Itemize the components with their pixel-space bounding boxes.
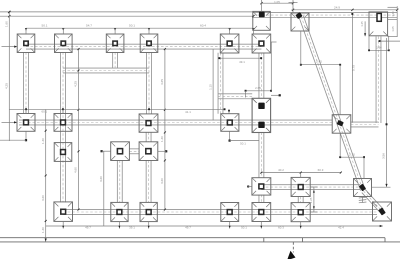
svg-text:3.56: 3.56 <box>382 153 386 159</box>
svg-text:49.7: 49.7 <box>85 226 91 230</box>
svg-text:4.25: 4.25 <box>74 81 78 87</box>
svg-text:24.9: 24.9 <box>334 5 340 9</box>
svg-text:1.60: 1.60 <box>5 21 9 27</box>
svg-text:1.40: 1.40 <box>160 136 164 142</box>
svg-text:60.1: 60.1 <box>41 110 47 114</box>
svg-text:1.90: 1.90 <box>376 46 382 50</box>
svg-text:39.1: 39.1 <box>129 226 135 230</box>
svg-text:1.40: 1.40 <box>41 138 45 144</box>
svg-text:1.40: 1.40 <box>391 11 395 17</box>
svg-text:1.05: 1.05 <box>274 0 280 4</box>
svg-text:49.1: 49.1 <box>239 60 245 64</box>
svg-text:1.40: 1.40 <box>41 227 45 233</box>
svg-text:2.30: 2.30 <box>349 152 355 156</box>
svg-text:60.3: 60.3 <box>318 168 324 172</box>
svg-text:50.1: 50.1 <box>241 226 247 230</box>
svg-text:1.05: 1.05 <box>391 26 395 32</box>
svg-text:49.7: 49.7 <box>185 226 191 230</box>
svg-text:42.4: 42.4 <box>338 226 344 230</box>
svg-text:40.2: 40.2 <box>278 168 284 172</box>
svg-text:41.1: 41.1 <box>185 110 191 114</box>
svg-text:5.75: 5.75 <box>352 65 356 71</box>
svg-text:4.25: 4.25 <box>160 79 164 85</box>
svg-text:60.3: 60.3 <box>278 226 284 230</box>
svg-text:1.25: 1.25 <box>360 21 364 27</box>
svg-text:54.7: 54.7 <box>86 24 92 28</box>
svg-text:3.20: 3.20 <box>41 195 45 201</box>
svg-text:3.20: 3.20 <box>160 178 164 184</box>
svg-text:1.25: 1.25 <box>309 197 313 203</box>
svg-text:60.4: 60.4 <box>200 24 206 28</box>
svg-text:50.1: 50.1 <box>240 141 246 145</box>
svg-text:50.1: 50.1 <box>41 24 47 28</box>
svg-text:4.25: 4.25 <box>5 83 9 89</box>
svg-text:2.45: 2.45 <box>316 60 322 64</box>
svg-text:50.1: 50.1 <box>129 24 135 28</box>
svg-text:1.15: 1.15 <box>208 84 212 90</box>
svg-text:3.20: 3.20 <box>99 176 103 182</box>
svg-text:4.60: 4.60 <box>74 167 78 173</box>
svg-text:2.65: 2.65 <box>255 86 261 90</box>
